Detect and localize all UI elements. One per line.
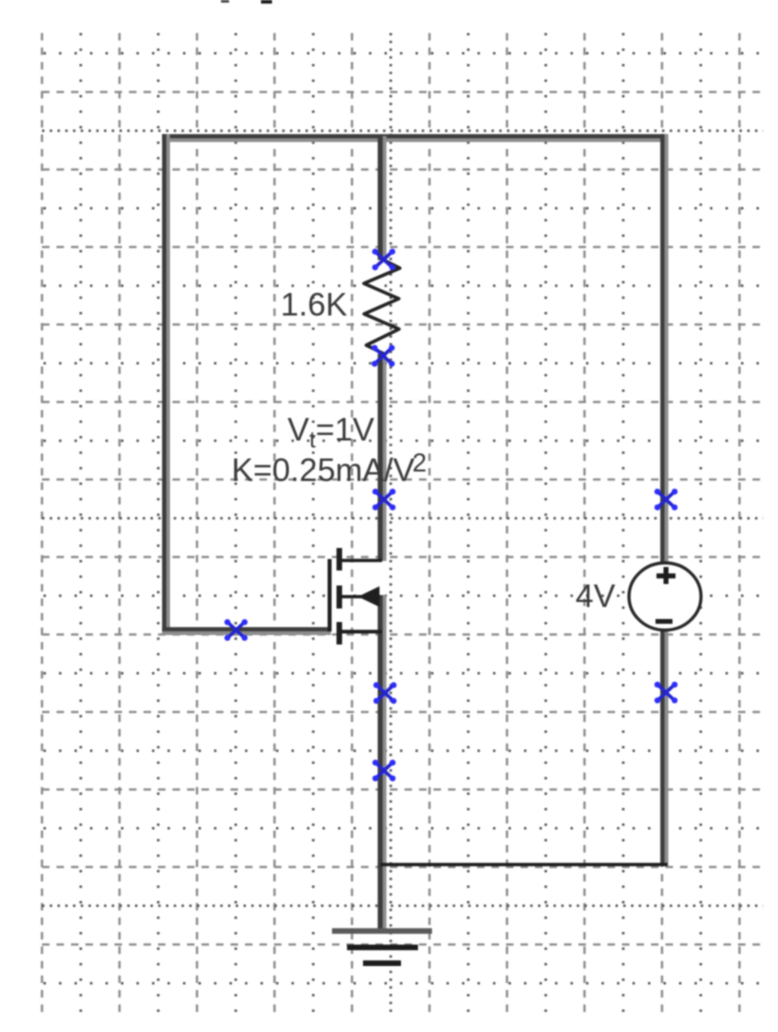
wire top rail (162, 136, 668, 140)
resistor R1 zigzag (364, 260, 400, 354)
transistor Q1 channel bar top (337, 548, 343, 571)
pin X gate wire (224, 619, 247, 641)
pin X resistor bottom (372, 345, 395, 367)
ground bar 3 (363, 960, 401, 966)
transistor Q1 source lead (342, 630, 382, 634)
ground bar 1 (332, 928, 432, 934)
caption remnant mark 1 (top edge) (221, 0, 229, 3)
wire gate horizontal (162, 629, 331, 633)
pin X ground wire (372, 760, 395, 782)
wire source rail (MOSFET source to bottom wire) (380, 595, 384, 866)
pin X resistor top (372, 249, 395, 271)
voltage source V1 minus sign (656, 619, 673, 624)
ground bar 2 (347, 945, 418, 951)
transistor Q1 NMOS gate bar (328, 559, 332, 632)
voltage source V1 circle (629, 563, 701, 630)
pin X source V- node (654, 682, 677, 704)
svg-text:1.6K: 1.6K (281, 287, 348, 323)
svg-text:4V: 4V (576, 578, 616, 614)
transistor Q1 channel bar bottom (337, 622, 343, 645)
wire right rail lower (662, 630, 666, 866)
pin X source V+ node (654, 489, 677, 511)
wire right rail upper (662, 134, 666, 563)
transistor Q1 body lead (342, 595, 380, 598)
wire ground stem (380, 864, 384, 929)
pin X drain node (372, 489, 395, 511)
svg-text:Vt=1V: Vt=1V (288, 412, 375, 453)
wire left rail (164, 134, 168, 634)
svg-text:K=0.25mA: K=0.25mA (232, 452, 385, 488)
wire drain rail mid (resistor to MOSFET drain) (380, 354, 384, 561)
pin X source node (373, 682, 396, 704)
transistor Q1 drain lead (342, 559, 382, 562)
wire drain rail upper (top wire to resistor) (380, 136, 384, 260)
transistor Q1 channel bar middle (337, 586, 343, 609)
transistor Q1 body arrow (358, 586, 380, 607)
caption remnant mark 2 (top edge) (261, 0, 272, 4)
wire bottom rail (381, 863, 668, 866)
voltage source V1 plus sign (657, 567, 676, 584)
